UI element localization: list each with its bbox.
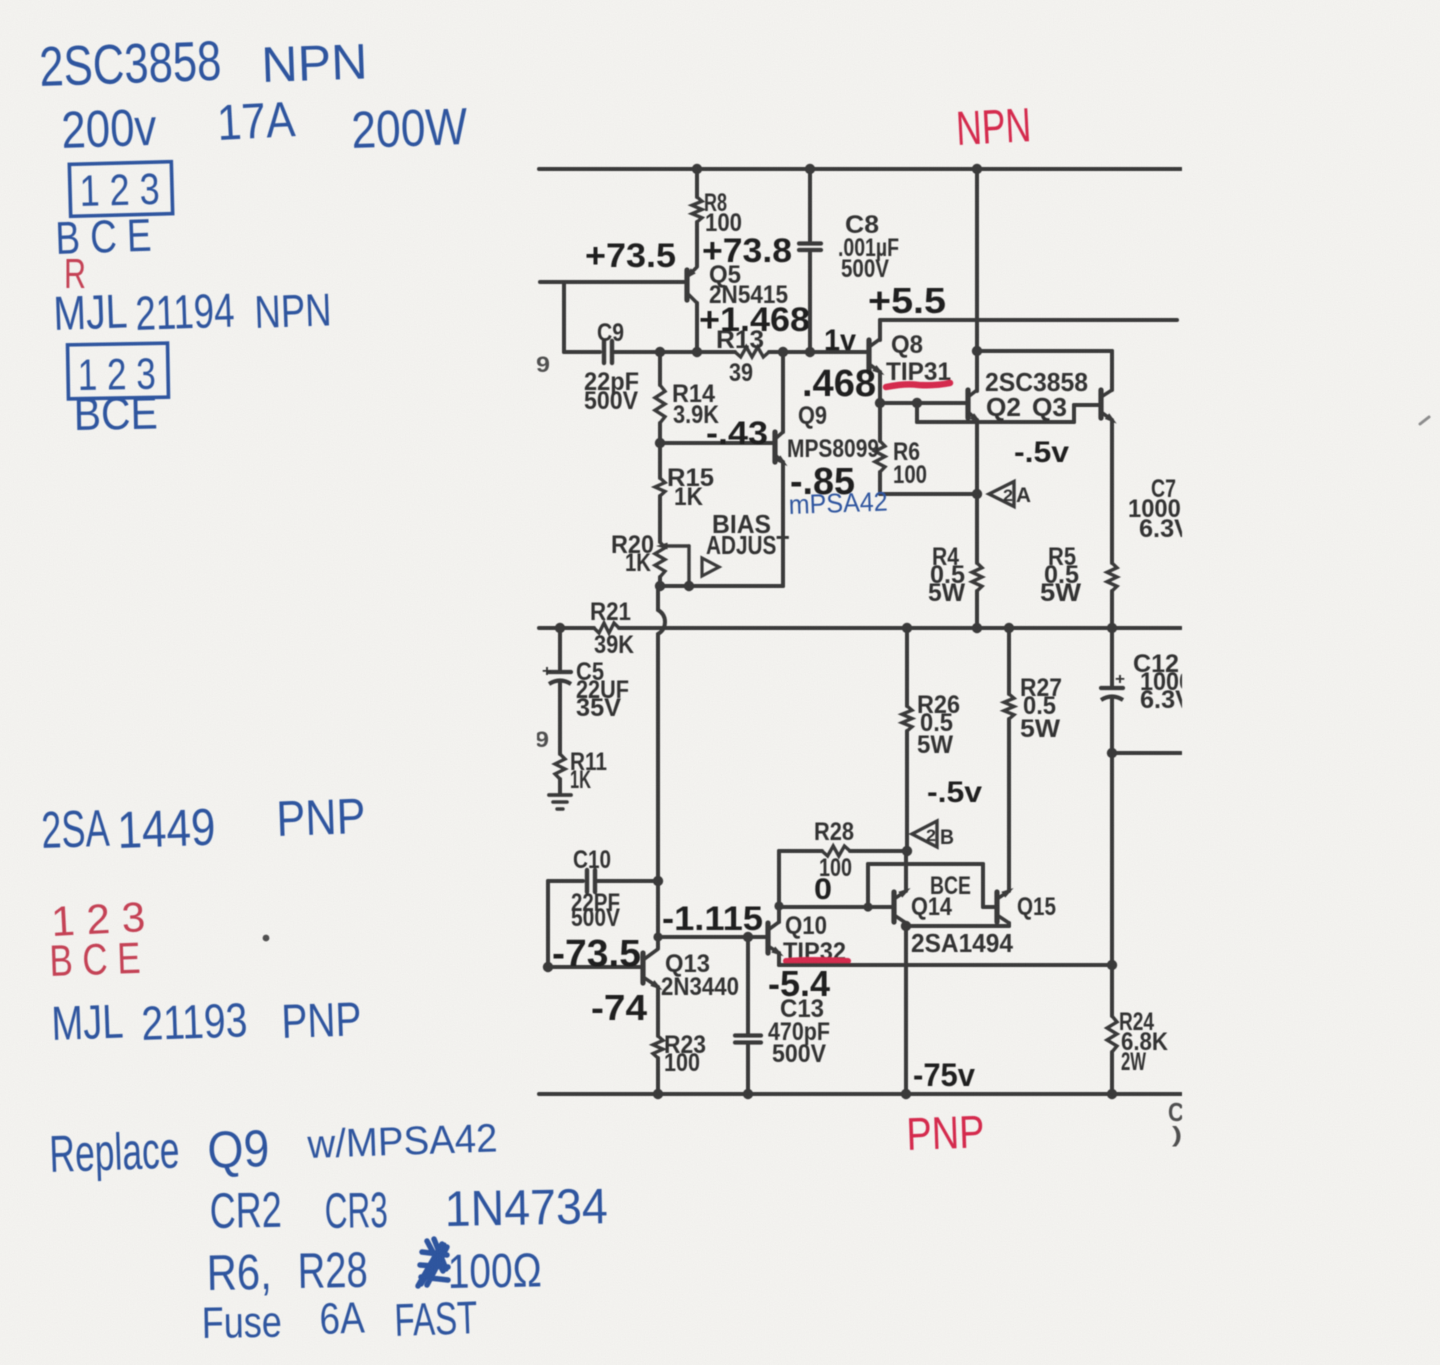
node junction box/Q14 base <box>863 902 872 911</box>
node junction R20/bias box bottom <box>655 581 665 591</box>
node junction Q14-Q15-collector/bottom rail <box>901 1089 911 1099</box>
node junction R6/Q2-emitter <box>972 489 982 499</box>
resistor R15 1K <box>658 443 662 478</box>
node junction R8/top rail <box>692 164 702 174</box>
wire output stub to sheet edge <box>1112 751 1181 755</box>
node junction emitter-wire/C12-R24 <box>1107 960 1117 970</box>
wire bias box bottom <box>660 584 783 588</box>
node junction stub <box>1107 748 1117 758</box>
bias test point triangle <box>702 558 719 576</box>
node junction C10/VAS line <box>653 876 663 886</box>
node junction Q10 collector/base-bus <box>774 901 783 910</box>
resistor R23 100 <box>653 1036 663 1058</box>
wire Q10 collector to Q14 base <box>779 905 892 909</box>
pen dot <box>263 935 270 942</box>
node junction R24/bottom rail <box>1107 1089 1117 1099</box>
handwritten blue pin box 1 2 3 (second) <box>68 343 169 399</box>
wire Q5 base from left edge <box>540 280 684 284</box>
faint scan speck <box>1420 417 1429 424</box>
resistor R6 100 <box>878 403 882 441</box>
wire Q2/Q3 collector bus <box>975 169 979 391</box>
node junction C8/top node <box>805 347 815 357</box>
resistor R4 0.5 5W <box>975 420 979 563</box>
handwritten blue scribble <box>418 1239 448 1286</box>
node B junction R26/R28 <box>902 846 912 856</box>
wiper arm R20 <box>668 544 689 547</box>
wire +75V top supply rail <box>539 167 1181 171</box>
node junction C10/Q13-base wire <box>543 962 553 972</box>
wire Q13 base <box>548 965 641 969</box>
wire Q14/Q15 collector join <box>906 924 1009 928</box>
node junction C13/Q10-base wire <box>743 932 753 942</box>
node junction collectors <box>901 921 911 931</box>
wire R6 bottom to node A <box>880 492 977 496</box>
node junction Q8-emitter <box>875 398 885 408</box>
node junction R4/mid rail <box>972 623 982 633</box>
resistor R8 100 <box>695 169 699 197</box>
node junction C5/mid rail <box>555 623 565 633</box>
resistor R14 3.9K <box>658 352 662 385</box>
wire Q9/R14 top node (goes to Q8 base) <box>612 350 735 354</box>
node junction R26/mid rail <box>902 623 912 633</box>
transistor Q3 2SC3858 NPN output <box>1098 390 1103 418</box>
potentiometer R20 1K bias adjust <box>655 542 665 577</box>
resistor R26 0.5 5W <box>905 628 909 706</box>
resistor R24 6.8K 2W <box>1110 965 1114 1016</box>
wire Q9 base <box>660 441 773 445</box>
wire +5.5 driver rail <box>880 318 1177 322</box>
wire Q10 emitter to C12/R24 node <box>779 963 1112 967</box>
ground symbol <box>549 793 571 797</box>
transistor Q10 TIP32 PNP driver <box>765 923 770 953</box>
wire Q8 emitter to Q2 base <box>880 401 966 405</box>
transistor Q2 2SC3858 NPN output <box>965 390 970 418</box>
resistor R21 39K (in rail) <box>594 623 619 633</box>
resistor R13 39 <box>735 347 769 357</box>
wire -75V bottom supply rail <box>539 1092 1181 1096</box>
node junction C13/bottom rail <box>743 1089 753 1099</box>
resistor R28 100 <box>779 849 822 853</box>
capacitor C12 1000uF 6.3V electrolytic <box>1110 628 1114 687</box>
wire bias bottom to Q13 collector (hops over rail) <box>658 586 665 881</box>
wire base bus step to Q3 <box>915 403 919 422</box>
transistor Q15 2SA1494 PNP output <box>994 892 999 922</box>
node junction R5-C12/mid rail <box>1107 623 1117 633</box>
wire Q14/Q15 base box <box>868 862 983 866</box>
node B off-page connector 2B <box>912 821 937 847</box>
transistor Q9 MPS8099 NPN bias <box>772 432 777 462</box>
node junction R27/mid rail <box>1004 623 1014 633</box>
resistor R5 0.5 5W <box>1110 420 1114 563</box>
wire VAS output to Q10 base <box>658 935 766 939</box>
node junction R14/top node <box>655 347 665 357</box>
capacitor C13 470pF 500V <box>746 937 750 1034</box>
capacitor C5 22UF 35V electrolytic <box>558 628 562 671</box>
wire left drop to C9 <box>562 282 566 352</box>
transistor Q14 2SA1494 PNP output <box>891 892 896 922</box>
red underline TIP31 <box>886 383 950 387</box>
node junction Q2-collector/top rail <box>972 164 982 174</box>
capacitor C10 22PF 500V <box>548 879 583 883</box>
handwritten blue pin box 1 2 3 (top) <box>69 162 172 217</box>
capacitor C8 .001uF 500V <box>808 169 812 241</box>
capacitor C9 22pF 500V <box>602 341 606 363</box>
node junction -1.115 branch <box>653 932 662 941</box>
node junction R14/R15/Q9-base <box>655 438 665 448</box>
node junction wiper/bottom wire <box>684 581 694 591</box>
transistor Q13 2N3440 NPN VAS <box>640 953 645 983</box>
transistor Q5 2N5415 PNP <box>684 270 689 300</box>
resistor R27 0.5 5W <box>1007 628 1011 694</box>
resistor R11 1K <box>555 754 565 779</box>
node junction C8/top rail <box>805 164 815 174</box>
node junction Q5-collector/top node <box>692 347 702 357</box>
node junction base-bus step <box>912 398 922 408</box>
node junction R23/bottom rail <box>653 1089 663 1099</box>
node junction Q9-collector/top node <box>778 347 788 357</box>
wire output mid rail <box>539 626 594 630</box>
transistor Q8 TIP31 NPN driver <box>866 340 871 372</box>
node A off-page connector 2A <box>989 482 1014 507</box>
red underline TIP32 <box>786 960 848 961</box>
node junction collector bus <box>972 346 982 356</box>
